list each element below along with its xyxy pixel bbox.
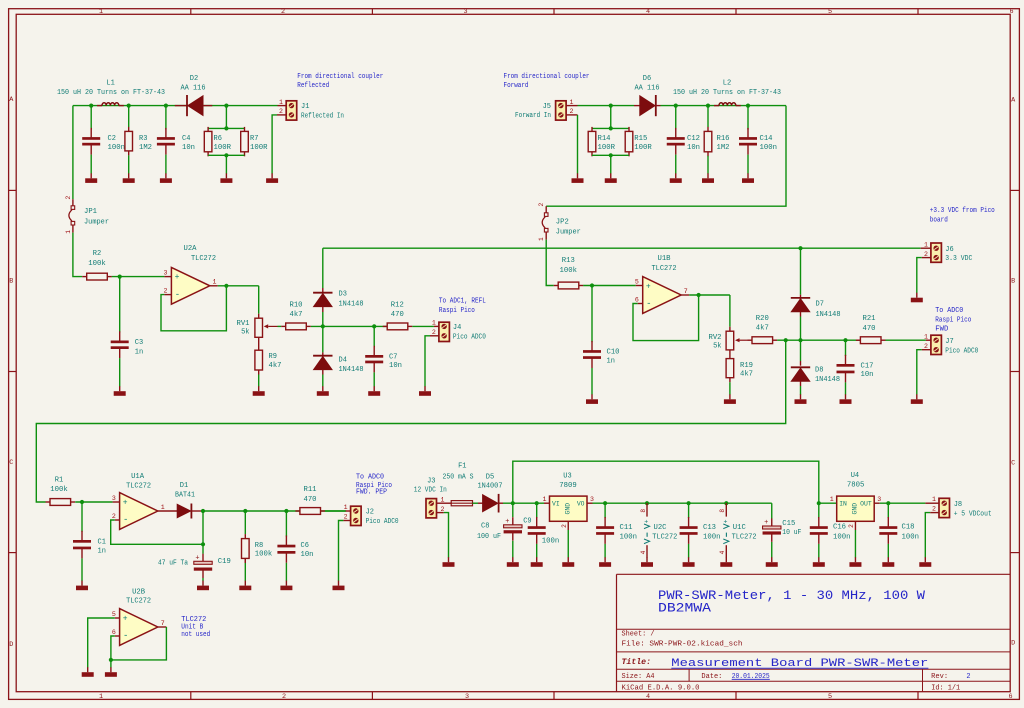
junction bus-C4 <box>164 104 168 108</box>
svg-text:1: 1 <box>344 504 348 511</box>
svg-text:FWD. PEP: FWD. PEP <box>356 488 387 496</box>
wire R6 R7 parallel top <box>208 106 244 129</box>
svg-text:1N4148: 1N4148 <box>339 366 364 374</box>
U3 labels <box>559 473 577 490</box>
junction 9V-U1C <box>724 501 728 505</box>
junction 9V-C11 <box>603 501 607 505</box>
junction node-C17 <box>843 338 847 342</box>
wire C1 to ground <box>81 558 83 581</box>
svg-text:2: 2 <box>281 8 285 16</box>
svg-text:470: 470 <box>304 496 317 504</box>
svg-text:C: C <box>1011 460 1015 468</box>
svg-text:TLC272: TLC272 <box>126 483 151 491</box>
capacitor C14 <box>739 106 757 155</box>
diode D7 <box>791 248 810 340</box>
ground J5 <box>572 173 584 183</box>
wire C18 to ground <box>887 544 889 558</box>
svg-text:10n: 10n <box>861 371 874 379</box>
junction J5-R14R15 <box>609 104 613 108</box>
svg-text:100n: 100n <box>620 533 638 541</box>
title block: comment PWR-SWR-Meter, 1 - 30 MHz, 100 W <box>658 589 926 603</box>
resistor R2 <box>82 273 112 280</box>
ground U1C <box>720 557 732 567</box>
D5 labels <box>478 473 503 490</box>
svg-text:47 uF Ta: 47 uF Ta <box>158 560 188 568</box>
svg-text:1: 1 <box>441 496 445 503</box>
wire J6 pin2 to ground <box>917 258 931 293</box>
svg-text:7: 7 <box>684 288 688 295</box>
svg-text:100R: 100R <box>214 144 232 152</box>
svg-text:From directional coupler: From directional coupler <box>504 73 590 81</box>
svg-text:R19: R19 <box>740 362 753 370</box>
svg-text:Raspi Pico: Raspi Pico <box>439 307 475 315</box>
wire JP2 to R13 <box>546 240 554 286</box>
ground C16 <box>813 557 825 567</box>
J2 pin numbers <box>344 504 348 521</box>
svg-text:4k7: 4k7 <box>290 311 303 319</box>
svg-text:TLC272: TLC272 <box>652 533 677 541</box>
svg-text:GND: GND <box>852 503 859 515</box>
C6 labels <box>301 542 314 559</box>
svg-text:+: + <box>646 282 651 291</box>
C4 labels <box>182 135 195 152</box>
wire R12 to J4 <box>412 325 439 327</box>
svg-text:J5: J5 <box>543 103 551 111</box>
RV2 labels <box>709 334 722 351</box>
junction bus-C12 <box>674 104 678 108</box>
C9 labels <box>523 517 559 545</box>
svg-text:470: 470 <box>391 311 404 319</box>
J4 pin numbers <box>432 320 436 336</box>
capacitor C17 <box>837 340 855 382</box>
svg-text:7805: 7805 <box>847 482 865 490</box>
svg-text:+: + <box>123 614 128 623</box>
junction R14R15 bottom <box>609 153 613 157</box>
svg-text:Id: 1/1: Id: 1/1 <box>931 685 960 693</box>
wire U2A output <box>218 285 259 287</box>
svg-text:R14: R14 <box>598 135 611 143</box>
svg-text:R15: R15 <box>634 135 647 143</box>
svg-text:3: 3 <box>463 8 467 16</box>
ground J7 <box>911 394 923 404</box>
wire U2A out to RV1 <box>258 286 260 314</box>
D1 labels <box>175 482 195 500</box>
C3 labels <box>135 339 143 357</box>
wire U1B out to RV2 <box>729 295 731 327</box>
potentiometer RV1 <box>255 314 278 338</box>
svg-text:100n: 100n <box>703 533 721 541</box>
C12 labels <box>687 135 700 152</box>
capacitor C3 <box>111 331 129 358</box>
connector J7 <box>931 335 942 354</box>
svg-text:4: 4 <box>719 550 726 554</box>
svg-text:1: 1 <box>830 496 834 503</box>
svg-text:Forward: Forward <box>504 82 529 90</box>
svg-text:2: 2 <box>164 287 168 294</box>
junction node-D7D8 <box>798 338 802 342</box>
wire C8 to ground <box>512 541 514 558</box>
wire U2A feedback <box>161 286 226 331</box>
ground C15 <box>766 557 778 567</box>
svg-text:5k: 5k <box>713 343 721 351</box>
svg-text:6: 6 <box>635 296 639 303</box>
svg-text:1: 1 <box>924 241 928 248</box>
svg-text:C2: C2 <box>108 135 116 143</box>
frame row letters right <box>1011 97 1016 648</box>
capacitor C1 <box>73 502 91 558</box>
svg-text:+: + <box>195 554 199 562</box>
svg-text:10n: 10n <box>687 144 700 152</box>
D8 labels <box>815 366 840 384</box>
junction R13-C10 <box>590 283 594 287</box>
svg-text:AA 116: AA 116 <box>181 85 206 93</box>
svg-text:1: 1 <box>279 99 283 106</box>
label: To ADC1 REFL Raspi Pico <box>439 298 486 315</box>
svg-text:2: 2 <box>966 673 970 681</box>
svg-text:J3: J3 <box>427 477 435 485</box>
title block: rev field <box>931 673 970 681</box>
svg-text:D: D <box>9 641 13 649</box>
capacitor C18 <box>879 503 897 544</box>
inductor L2 <box>714 103 741 106</box>
svg-text:Raspi Pico: Raspi Pico <box>935 316 971 324</box>
C13 labels <box>703 524 721 541</box>
wire U1B output <box>689 294 730 296</box>
svg-text:1: 1 <box>538 237 545 241</box>
svg-text:Forward In: Forward In <box>515 112 551 120</box>
wire R1 to U1A <box>75 501 112 503</box>
svg-text:D6: D6 <box>643 75 651 83</box>
C19 labels <box>158 558 231 568</box>
svg-text:5: 5 <box>112 611 116 618</box>
svg-text:100R: 100R <box>634 144 652 152</box>
wire U2B plus input to ground <box>88 618 115 668</box>
wire R19 to ground <box>729 378 731 395</box>
wire C6 to ground <box>285 563 287 581</box>
capacitor C7 <box>365 326 383 372</box>
title block: file field <box>622 641 743 649</box>
connector J8 <box>925 498 949 517</box>
wire 9V rail <box>593 502 772 504</box>
svg-text:2: 2 <box>65 196 72 200</box>
svg-text:2: 2 <box>432 329 436 336</box>
wire D3 to 3.3V rail <box>322 248 324 288</box>
svg-text:1: 1 <box>924 333 928 340</box>
junction U4 input <box>817 501 821 505</box>
fuse F1 <box>451 501 472 506</box>
ground R8 <box>239 581 251 591</box>
ground C7 <box>368 386 380 396</box>
wire C4 to ground <box>165 155 167 174</box>
svg-text:R21: R21 <box>863 315 876 323</box>
R15 labels <box>634 135 652 152</box>
J6 pin numbers <box>924 241 928 257</box>
capacitor C2 <box>82 128 100 155</box>
svg-text:D8: D8 <box>815 366 823 374</box>
svg-text:150 uH 20 Turns on FT-37-43: 150 uH 20 Turns on FT-37-43 <box>57 89 165 97</box>
JP1 labels <box>84 208 109 227</box>
capacitor C16 <box>810 503 828 544</box>
svg-text:GND: GND <box>564 503 571 515</box>
svg-text:1n: 1n <box>98 547 106 555</box>
wire R13 to U1B <box>583 285 636 287</box>
svg-text:C13: C13 <box>703 524 716 532</box>
R11 labels <box>304 486 317 504</box>
svg-text:1M2: 1M2 <box>717 144 730 152</box>
svg-text:100 uF: 100 uF <box>477 533 501 541</box>
ground J2 <box>333 581 345 591</box>
wire C3 to ground <box>119 358 121 386</box>
svg-text:1N4148: 1N4148 <box>815 376 840 384</box>
svg-text:IN: IN <box>839 501 847 508</box>
resistor R1 <box>46 499 76 506</box>
svg-text:Rev:: Rev: <box>931 673 948 681</box>
svg-text:U1B: U1B <box>658 255 671 263</box>
svg-text:File: SWR-PWR-02.kicad_sch: File: SWR-PWR-02.kicad_sch <box>622 641 743 649</box>
op-amp U1C power pins <box>719 503 729 558</box>
resistor R14 <box>588 127 596 156</box>
svg-text:Jumper: Jumper <box>84 219 109 227</box>
svg-text:10n: 10n <box>182 144 195 152</box>
op-amp U1A <box>113 493 178 530</box>
ground R14R15 <box>605 173 617 183</box>
title block: title Measurement Board PWR-SWR-Meter <box>671 658 928 670</box>
junction 9V-U2C <box>645 501 649 505</box>
wire R21 to J7 <box>886 339 931 341</box>
svg-text:FWD: FWD <box>935 326 948 334</box>
svg-text:2: 2 <box>112 513 116 520</box>
wire D6 to corner <box>661 105 787 107</box>
U2B labels <box>126 588 151 605</box>
ground C1 <box>76 581 88 591</box>
wire R10 to node <box>311 325 387 327</box>
svg-text:To ADC1, REFL: To ADC1, REFL <box>439 298 486 306</box>
C7 labels <box>389 354 402 371</box>
frame row letters left <box>9 96 14 649</box>
wire R3 drop <box>128 106 130 127</box>
svg-text:TLC272: TLC272 <box>191 255 216 263</box>
svg-text:100k: 100k <box>88 260 106 268</box>
svg-text:L2: L2 <box>723 79 731 87</box>
svg-text:U2B: U2B <box>132 588 145 596</box>
resistor R8 <box>242 511 250 563</box>
svg-text:100R: 100R <box>250 144 268 152</box>
svg-text:F1: F1 <box>458 462 466 470</box>
svg-text:C3: C3 <box>135 339 143 347</box>
wire R20 to node <box>777 339 860 341</box>
wire R14 R15 parallel top <box>592 106 629 129</box>
svg-text:C6: C6 <box>301 542 309 550</box>
wire JP1 to R2 <box>73 233 82 277</box>
svg-text:3: 3 <box>465 693 469 701</box>
J1 pin numbers <box>279 99 283 115</box>
svg-text:150 uH 20 Turns on FT-37-43: 150 uH 20 Turns on FT-37-43 <box>673 89 781 97</box>
svg-text:2: 2 <box>924 251 928 258</box>
JP2 labels <box>556 218 581 236</box>
svg-text:C15: C15 <box>782 520 795 528</box>
svg-text:Pico ADC0: Pico ADC0 <box>453 333 486 341</box>
svg-text:C4: C4 <box>182 135 190 143</box>
svg-text:JP2: JP2 <box>556 218 569 226</box>
svg-text:4k7: 4k7 <box>269 362 282 370</box>
svg-text:L1: L1 <box>106 79 114 87</box>
svg-text:D4: D4 <box>339 357 347 365</box>
wire U4 gnd pin <box>854 521 856 557</box>
diode D8 <box>791 340 810 395</box>
title block: size field <box>622 673 655 681</box>
wire J2 pin2 to ground <box>339 521 351 581</box>
svg-text:C17: C17 <box>861 362 874 370</box>
junction bus-R16 <box>706 104 710 108</box>
svg-text:D7: D7 <box>816 301 824 309</box>
svg-text:2: 2 <box>279 108 283 115</box>
resistor R15 <box>625 127 633 156</box>
jumper JP1 <box>69 199 75 232</box>
svg-text:2: 2 <box>570 108 574 115</box>
junction 5V-C18 <box>886 501 890 505</box>
diode D5 <box>483 494 503 513</box>
wire C4 drop <box>165 106 167 130</box>
RV1 labels <box>237 320 250 337</box>
ground R9 <box>253 386 265 396</box>
R19 labels <box>740 362 753 379</box>
ground R6R7 <box>220 173 232 183</box>
resistor R16 <box>704 106 712 157</box>
label: To ADC0 Raspi Pico FWD <box>935 307 971 334</box>
resistor R12 <box>383 323 413 330</box>
ground C19 <box>197 581 209 591</box>
junction 12V-C9 <box>535 501 539 505</box>
ground C6 <box>280 581 292 591</box>
ground C18 <box>882 557 894 567</box>
svg-text:Date:: Date: <box>701 673 722 681</box>
R2 labels <box>88 250 106 268</box>
C1 labels <box>98 539 106 556</box>
wire U2B feedback <box>111 627 166 660</box>
svg-text:6: 6 <box>112 629 116 636</box>
svg-text:+ 5 VDCout: + 5 VDCout <box>954 510 992 518</box>
title block: Title label <box>622 657 651 667</box>
svg-text:1: 1 <box>213 279 217 286</box>
net 3.3VDC rail <box>323 247 921 249</box>
svg-text:U2C: U2C <box>654 524 667 532</box>
ground C10 <box>586 394 598 404</box>
ground C13 <box>683 557 695 567</box>
C16 labels <box>833 523 851 541</box>
svg-text:J7: J7 <box>945 338 953 346</box>
regulator U3 7809 <box>544 496 593 521</box>
svg-text:C10: C10 <box>607 349 620 357</box>
capacitor C11 <box>596 503 614 544</box>
F1 labels <box>443 462 474 481</box>
svg-text:R12: R12 <box>391 302 404 310</box>
U2B pin numbers <box>112 611 165 636</box>
C14 labels <box>760 135 778 152</box>
connector J2 <box>351 506 362 525</box>
svg-text:DB2MWA: DB2MWA <box>658 602 712 616</box>
J4 labels <box>453 324 486 341</box>
wire 12V node <box>503 502 544 504</box>
ground C2 <box>85 173 97 183</box>
svg-text:6: 6 <box>1009 8 1013 16</box>
J1 labels <box>301 103 344 120</box>
svg-text:R6: R6 <box>214 135 222 143</box>
U1C labels <box>732 524 757 541</box>
svg-text:1M2: 1M2 <box>139 144 152 152</box>
ground U2B minus <box>105 667 117 677</box>
J5 pin numbers <box>570 99 574 115</box>
label: TLC272 Unit B not used <box>181 616 210 639</box>
svg-text:1N4007: 1N4007 <box>478 483 503 491</box>
junction R1-C1 <box>80 500 84 504</box>
junction FWD-PEP tap <box>784 338 788 342</box>
wire RV1 wiper to R10 <box>278 325 282 327</box>
U2A pin numbers <box>164 269 217 294</box>
R10 labels <box>290 302 303 319</box>
junction U1B out <box>697 293 701 297</box>
svg-text:-: - <box>175 290 180 300</box>
C15 labels <box>782 520 801 537</box>
svg-text:OUT: OUT <box>860 501 872 508</box>
svg-text:+: + <box>123 498 128 507</box>
junction U2A out <box>224 284 228 288</box>
svg-text:2: 2 <box>441 506 445 513</box>
wire C11 to ground <box>604 544 606 558</box>
svg-text:8: 8 <box>640 509 647 513</box>
L1 labels <box>57 79 165 97</box>
ground D8 <box>795 394 807 404</box>
svg-text:10 uF: 10 uF <box>782 529 801 537</box>
U3 pin numbers <box>543 496 594 528</box>
connector J3 <box>426 499 437 518</box>
ground C4 <box>160 173 172 183</box>
svg-text:10n: 10n <box>389 362 402 370</box>
svg-text:470: 470 <box>863 325 876 333</box>
ground J3 <box>443 557 455 567</box>
svg-text:J2: J2 <box>366 509 374 517</box>
svg-text:D5: D5 <box>486 473 494 481</box>
C18 labels <box>902 523 920 541</box>
wire R16 to ground <box>707 156 709 174</box>
title block: date field <box>701 673 769 681</box>
U2A labels <box>184 245 217 263</box>
svg-text:not used: not used <box>181 631 210 639</box>
svg-text:5: 5 <box>828 693 832 701</box>
svg-text:R2: R2 <box>93 250 101 258</box>
svg-text:TLC272: TLC272 <box>126 597 151 605</box>
svg-text:Size: A4: Size: A4 <box>622 673 655 681</box>
svg-text:3: 3 <box>112 495 116 502</box>
svg-text:7: 7 <box>161 620 165 627</box>
svg-text:+: + <box>764 519 768 527</box>
svg-text:Pico ADC0: Pico ADC0 <box>945 347 978 355</box>
svg-text:Reflected: Reflected <box>297 82 329 90</box>
R6 labels <box>214 135 232 152</box>
wire: reflected input bus <box>73 105 278 107</box>
svg-text:1N4148: 1N4148 <box>339 301 364 309</box>
svg-text:Jumper: Jumper <box>556 228 581 236</box>
svg-text:C14: C14 <box>760 135 773 143</box>
wire U1B feedback <box>633 295 699 341</box>
junction R2-C3 <box>118 275 122 279</box>
resistor R7 <box>241 127 249 156</box>
junction 12V-C8 <box>511 501 515 505</box>
svg-text:1n: 1n <box>607 358 615 366</box>
resistor R10 <box>281 323 311 330</box>
wire C2 drop <box>90 106 92 130</box>
svg-text:+3.3 VDC from Pico: +3.3 VDC from Pico <box>930 207 995 215</box>
svg-text:4: 4 <box>646 8 650 16</box>
